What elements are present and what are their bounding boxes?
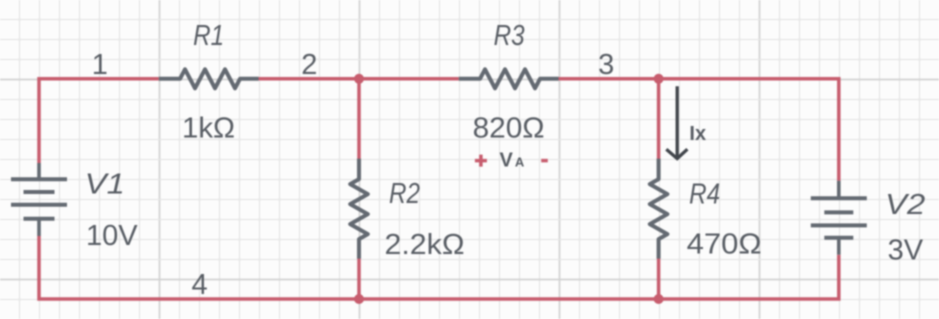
svg-text:10V: 10V [86,220,138,252]
svg-text:3: 3 [598,49,614,81]
svg-text:A: A [515,154,525,169]
svg-text:4: 4 [192,269,208,301]
svg-text:R3: R3 [494,20,525,52]
svg-text:470Ω: 470Ω [687,229,762,261]
svg-text:V2: V2 [885,189,925,221]
svg-text:2: 2 [301,49,317,81]
svg-text:R2: R2 [389,178,420,210]
svg-text:V1: V1 [85,169,125,201]
svg-text:V: V [500,149,514,171]
svg-text:1: 1 [92,49,108,81]
svg-text:820Ω: 820Ω [473,113,545,145]
svg-text:2.2kΩ: 2.2kΩ [385,229,465,261]
svg-text:R1: R1 [193,20,224,52]
svg-text:1kΩ: 1kΩ [182,113,235,145]
svg-text:x: x [695,123,706,145]
svg-text:3V: 3V [888,235,924,267]
svg-text:R4: R4 [689,179,720,211]
